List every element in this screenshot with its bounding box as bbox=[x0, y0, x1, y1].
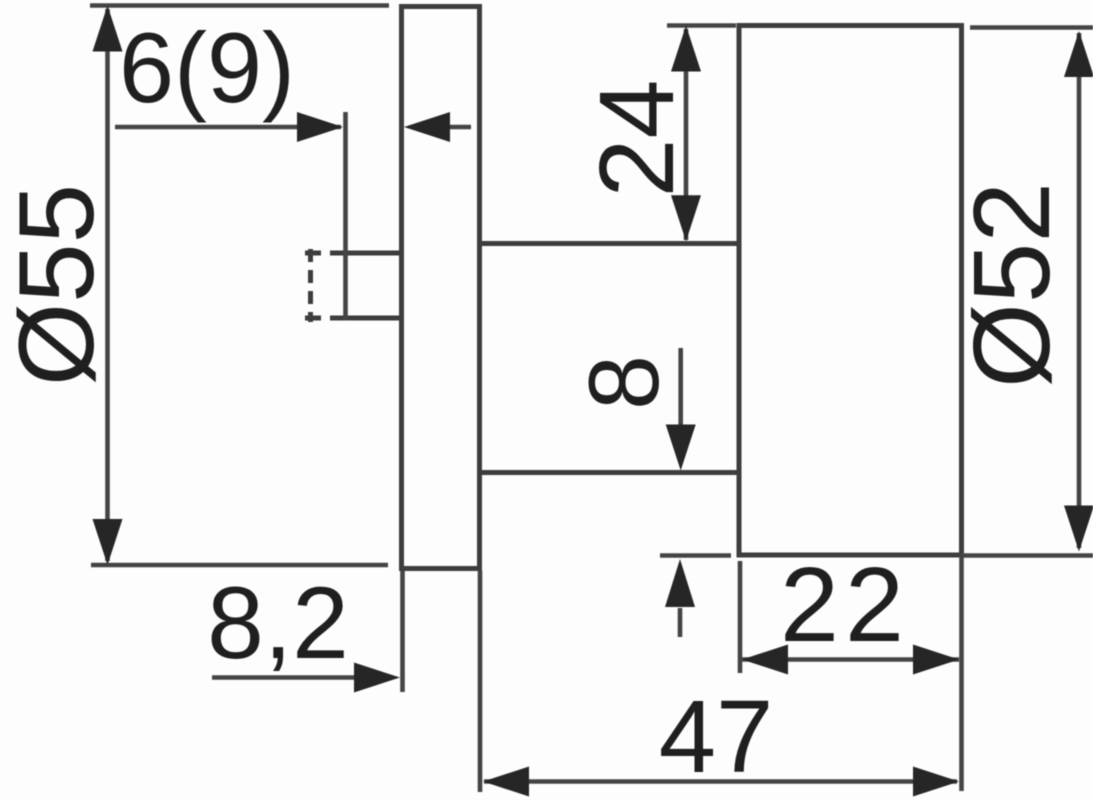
svg-text:24: 24 bbox=[578, 80, 696, 198]
svg-text:8,2: 8,2 bbox=[207, 566, 349, 680]
svg-text:22: 22 bbox=[780, 546, 910, 664]
svg-text:Ø52: Ø52 bbox=[951, 182, 1073, 388]
svg-text:8: 8 bbox=[568, 355, 679, 410]
svg-text:47: 47 bbox=[659, 679, 774, 794]
svg-text:Ø55: Ø55 bbox=[0, 184, 116, 386]
svg-text:6(9): 6(9) bbox=[119, 12, 295, 123]
